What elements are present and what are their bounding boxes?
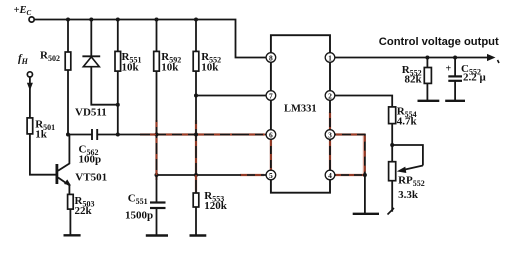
svg-text:R502: R502 xyxy=(40,50,60,64)
svg-text:fH: fH xyxy=(18,53,29,67)
svg-text:7: 7 xyxy=(269,91,273,100)
svg-text:120k: 120k xyxy=(204,200,228,212)
svg-text:4: 4 xyxy=(328,171,332,180)
svg-text:2: 2 xyxy=(328,91,332,100)
svg-text:LM331: LM331 xyxy=(284,104,317,115)
svg-text:10k: 10k xyxy=(122,62,140,74)
svg-text:C551: C551 xyxy=(128,193,148,207)
svg-text:4.7k: 4.7k xyxy=(397,116,418,128)
svg-text:1k: 1k xyxy=(35,129,48,141)
svg-text:+EC: +EC xyxy=(14,5,32,17)
svg-text:5: 5 xyxy=(269,171,273,180)
svg-text:1500p: 1500p xyxy=(125,210,153,222)
svg-text:8: 8 xyxy=(269,53,273,62)
svg-text:VT501: VT501 xyxy=(75,172,107,184)
svg-text:RP552: RP552 xyxy=(398,175,425,189)
svg-text:1: 1 xyxy=(328,53,332,62)
svg-text:6: 6 xyxy=(269,130,273,139)
svg-text:3: 3 xyxy=(328,130,332,139)
svg-text:3.3k: 3.3k xyxy=(398,189,419,201)
svg-text:2.2 μ: 2.2 μ xyxy=(463,71,487,83)
svg-text:100p: 100p xyxy=(79,154,102,166)
svg-text:22k: 22k xyxy=(75,205,93,217)
svg-text:+: + xyxy=(446,64,452,75)
svg-text:VD511: VD511 xyxy=(75,107,107,119)
svg-text:Control voltage output: Control voltage output xyxy=(379,36,499,48)
svg-text:10k: 10k xyxy=(201,62,219,74)
svg-text:82k: 82k xyxy=(405,74,423,86)
svg-text:10k: 10k xyxy=(161,62,179,74)
